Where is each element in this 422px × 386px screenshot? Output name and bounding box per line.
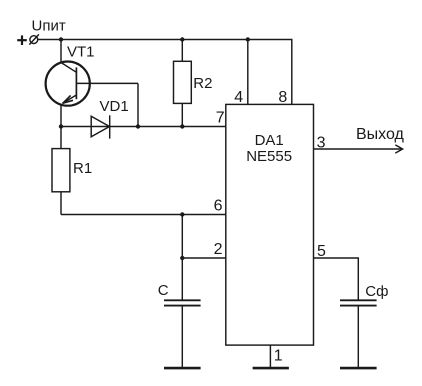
resistor R2 — [174, 40, 192, 127]
ground under Сф — [340, 367, 377, 370]
wire pin7 net horizontal — [61, 126, 226, 128]
svg-text:R1: R1 — [73, 160, 92, 177]
power input terminal circle Uпит — [29, 34, 39, 44]
wire pin6 net horizontal — [61, 214, 226, 216]
svg-text:7: 7 — [216, 109, 225, 126]
svg-text:8: 8 — [278, 89, 287, 106]
svg-text:Выход: Выход — [356, 126, 405, 143]
wire pin2 net horizontal — [182, 257, 226, 259]
wire pin1 to ground — [269, 345, 271, 367]
op-amp/IC DA1 NE555 body — [226, 104, 314, 345]
ground under pin1 — [253, 367, 289, 370]
svg-text:DA1: DA1 — [255, 132, 284, 149]
junction on rail at pin4 — [246, 37, 250, 41]
capacitor Сф — [340, 300, 377, 305]
wire pin4 drop from rail — [247, 40, 249, 105]
wire pin3 output with arrowhead — [314, 145, 403, 153]
junction pin2 — [180, 256, 184, 260]
wire VT1 base drop — [137, 83, 139, 126]
svg-text:6: 6 — [214, 198, 223, 215]
svg-text:Uпит: Uпит — [32, 18, 66, 35]
wire Сф to ground — [357, 306, 359, 367]
capacitor C — [164, 300, 201, 305]
ground under C — [164, 367, 201, 370]
junction base wire on pin7 net — [136, 124, 140, 128]
power terminal + symbol — [17, 35, 27, 45]
svg-text:R2: R2 — [193, 75, 212, 92]
diode VD1 — [91, 115, 110, 138]
transistor VT1 — [46, 62, 138, 106]
svg-text:1: 1 — [274, 347, 283, 364]
junction pin6/divider — [180, 212, 184, 216]
wire VT1 collector drop — [60, 40, 62, 64]
resistor R1 — [52, 127, 70, 215]
wire top supply rail — [38, 40, 292, 105]
svg-text:2: 2 — [214, 241, 223, 258]
junction emitter/R1/VD1 anode — [59, 124, 63, 128]
junction R2 bottom on pin7 net — [180, 124, 184, 128]
svg-text:Сф: Сф — [365, 283, 388, 300]
wire C to ground — [181, 306, 183, 367]
svg-text:NE555: NE555 — [246, 148, 292, 165]
junction on rail at R2 — [180, 37, 184, 41]
junction on rail at VT1 collector — [59, 37, 63, 41]
svg-text:VT1: VT1 — [67, 44, 95, 61]
svg-text:VD1: VD1 — [100, 98, 129, 115]
svg-text:C: C — [158, 282, 169, 299]
wire VT1 emitter drop — [60, 104, 62, 126]
wire vertical pin6 to pin2 to C — [181, 215, 183, 301]
wire pin5 to Сф — [314, 258, 359, 300]
svg-text:4: 4 — [234, 89, 243, 106]
